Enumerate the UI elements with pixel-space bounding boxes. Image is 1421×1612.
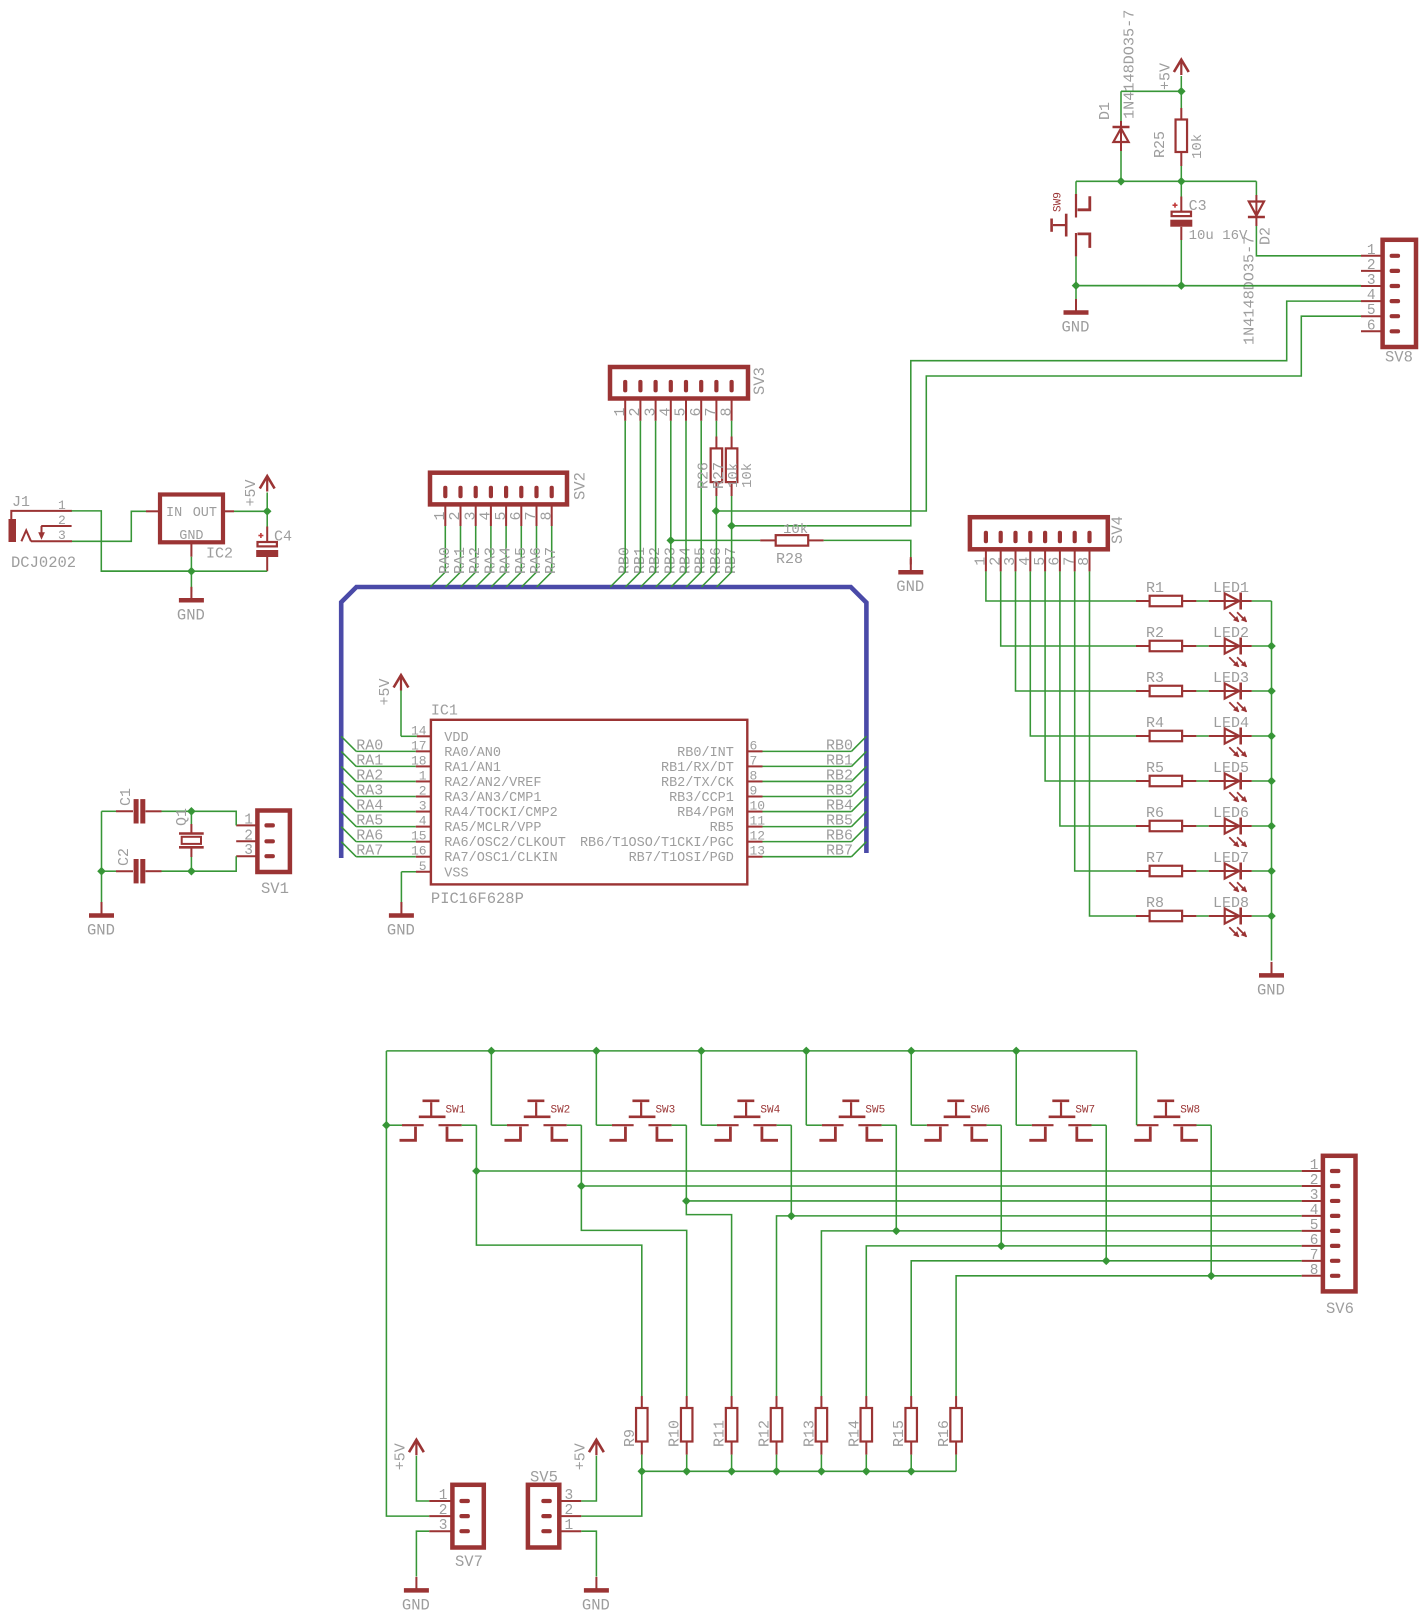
svg-text:1: 1 bbox=[1367, 243, 1376, 259]
svg-text:SW4: SW4 bbox=[760, 1105, 780, 1117]
svg-text:LED6: LED6 bbox=[1213, 805, 1249, 822]
svg-text:6: 6 bbox=[1310, 1233, 1319, 1249]
svg-text:2: 2 bbox=[439, 1503, 448, 1519]
svg-text:SW6: SW6 bbox=[970, 1105, 990, 1117]
svg-text:C2: C2 bbox=[116, 848, 133, 866]
svg-text:DCJ0202: DCJ0202 bbox=[11, 554, 76, 572]
svg-text:GND: GND bbox=[1062, 319, 1090, 337]
svg-text:LED3: LED3 bbox=[1213, 670, 1249, 687]
svg-text:+5V: +5V bbox=[243, 479, 260, 506]
svg-text:+5V: +5V bbox=[392, 1443, 409, 1470]
svg-text:3: 3 bbox=[58, 528, 66, 543]
svg-text:R13: R13 bbox=[801, 1420, 818, 1447]
svg-text:LED8: LED8 bbox=[1213, 895, 1249, 912]
svg-text:D1: D1 bbox=[1097, 102, 1114, 120]
svg-text:1N4148DO35-7: 1N4148DO35-7 bbox=[1121, 10, 1139, 119]
svg-text:LED7: LED7 bbox=[1213, 850, 1249, 867]
svg-text:1: 1 bbox=[565, 1518, 574, 1534]
svg-text:GND: GND bbox=[387, 922, 415, 940]
svg-text:R10: R10 bbox=[667, 1420, 684, 1447]
svg-text:RB6/T1OSO/T1CKI/PGC: RB6/T1OSO/T1CKI/PGC bbox=[580, 836, 734, 851]
svg-text:RB3/CCP1: RB3/CCP1 bbox=[669, 791, 734, 806]
svg-text:2: 2 bbox=[1310, 1173, 1319, 1189]
svg-text:1: 1 bbox=[439, 1488, 448, 1504]
svg-text:SW9: SW9 bbox=[1053, 192, 1065, 212]
svg-text:R28: R28 bbox=[776, 551, 803, 568]
svg-text:1N4148DO35-7: 1N4148DO35-7 bbox=[1241, 236, 1259, 345]
svg-text:SV1: SV1 bbox=[261, 880, 289, 898]
svg-text:C1: C1 bbox=[118, 788, 135, 806]
svg-text:C4: C4 bbox=[274, 529, 292, 546]
svg-text:3: 3 bbox=[244, 843, 253, 859]
svg-text:SV2: SV2 bbox=[572, 472, 590, 500]
svg-text:SW1: SW1 bbox=[446, 1105, 466, 1117]
svg-text:RA3/AN3/CMP1: RA3/AN3/CMP1 bbox=[444, 791, 541, 806]
svg-text:7: 7 bbox=[1310, 1248, 1319, 1264]
svg-text:GND: GND bbox=[582, 1596, 610, 1612]
svg-text:1: 1 bbox=[244, 812, 253, 828]
svg-text:SW8: SW8 bbox=[1180, 1105, 1200, 1117]
svg-text:R27: R27 bbox=[711, 462, 728, 489]
svg-text:RB4/PGM: RB4/PGM bbox=[677, 806, 734, 821]
svg-text:1: 1 bbox=[58, 498, 66, 513]
svg-text:+5V: +5V bbox=[1157, 63, 1174, 90]
svg-text:RB5: RB5 bbox=[710, 821, 734, 836]
svg-text:R7: R7 bbox=[1146, 850, 1164, 867]
svg-text:R12: R12 bbox=[757, 1420, 774, 1447]
svg-text:LED4: LED4 bbox=[1213, 715, 1249, 732]
svg-text:R4: R4 bbox=[1146, 715, 1164, 732]
svg-text:R16: R16 bbox=[936, 1420, 953, 1447]
svg-text:RA5/MCLR/VPP: RA5/MCLR/VPP bbox=[444, 821, 541, 836]
svg-text:LED2: LED2 bbox=[1213, 625, 1249, 642]
svg-text:GND: GND bbox=[896, 578, 924, 596]
svg-text:J1: J1 bbox=[12, 494, 30, 511]
svg-text:10k: 10k bbox=[783, 522, 808, 538]
svg-text:SV7: SV7 bbox=[455, 1553, 483, 1571]
svg-text:GND: GND bbox=[177, 606, 205, 624]
svg-text:10k: 10k bbox=[1190, 134, 1206, 159]
svg-text:R1: R1 bbox=[1146, 580, 1164, 597]
svg-text:R26: R26 bbox=[696, 462, 713, 489]
svg-text:RA7/OSC1/CLKIN: RA7/OSC1/CLKIN bbox=[444, 851, 557, 866]
svg-text:R14: R14 bbox=[846, 1420, 863, 1447]
svg-text:2: 2 bbox=[565, 1503, 574, 1519]
svg-text:IC2: IC2 bbox=[206, 546, 233, 563]
svg-text:10k: 10k bbox=[740, 463, 756, 488]
svg-text:SW2: SW2 bbox=[550, 1105, 570, 1117]
svg-text:SW7: SW7 bbox=[1075, 1105, 1095, 1117]
svg-text:R5: R5 bbox=[1146, 760, 1164, 777]
svg-text:SW3: SW3 bbox=[655, 1105, 675, 1117]
svg-text:SV5: SV5 bbox=[530, 1469, 558, 1487]
svg-text:C3: C3 bbox=[1189, 198, 1207, 215]
svg-text:RB7/T1OSI/PGD: RB7/T1OSI/PGD bbox=[629, 851, 734, 866]
svg-text:OUT: OUT bbox=[193, 506, 217, 521]
svg-text:R11: R11 bbox=[712, 1420, 729, 1447]
svg-text:1: 1 bbox=[1310, 1158, 1319, 1174]
svg-text:SV3: SV3 bbox=[751, 367, 769, 395]
svg-text:5: 5 bbox=[1310, 1218, 1319, 1234]
svg-text:8: 8 bbox=[718, 407, 735, 416]
svg-text:GND: GND bbox=[402, 1596, 430, 1612]
svg-text:RA2/AN2/VREF: RA2/AN2/VREF bbox=[444, 776, 541, 791]
svg-text:RB1/RX/DT: RB1/RX/DT bbox=[661, 761, 734, 776]
svg-text:RA1/AN1: RA1/AN1 bbox=[444, 761, 501, 776]
svg-text:R15: R15 bbox=[891, 1420, 908, 1447]
svg-text:VSS: VSS bbox=[444, 866, 468, 881]
svg-text:RA4/TOCKI/CMP2: RA4/TOCKI/CMP2 bbox=[444, 806, 557, 821]
svg-text:D2: D2 bbox=[1258, 227, 1275, 245]
svg-text:5: 5 bbox=[1367, 303, 1376, 319]
svg-text:VDD: VDD bbox=[444, 731, 468, 746]
svg-text:R9: R9 bbox=[622, 1429, 639, 1447]
svg-text:LED1: LED1 bbox=[1213, 580, 1249, 597]
svg-text:R8: R8 bbox=[1146, 895, 1164, 912]
svg-text:SV6: SV6 bbox=[1326, 1300, 1354, 1318]
svg-text:3: 3 bbox=[1367, 273, 1376, 289]
svg-text:PIC16F628P: PIC16F628P bbox=[431, 890, 524, 908]
svg-text:R3: R3 bbox=[1146, 670, 1164, 687]
svg-text:RA6/OSC2/CLKOUT: RA6/OSC2/CLKOUT bbox=[444, 836, 566, 851]
svg-text:RA7: RA7 bbox=[356, 843, 383, 860]
svg-text:+5V: +5V bbox=[377, 678, 394, 705]
svg-text:SV4: SV4 bbox=[1109, 516, 1127, 544]
svg-text:GND: GND bbox=[1257, 981, 1285, 999]
svg-text:4: 4 bbox=[1310, 1203, 1319, 1219]
svg-text:IC1: IC1 bbox=[431, 703, 458, 720]
svg-text:GND: GND bbox=[179, 529, 203, 544]
svg-text:RB7: RB7 bbox=[826, 843, 853, 860]
svg-text:8: 8 bbox=[1076, 557, 1093, 566]
svg-text:4: 4 bbox=[1367, 288, 1376, 304]
svg-text:SW5: SW5 bbox=[865, 1105, 885, 1117]
svg-text:IN: IN bbox=[166, 506, 182, 521]
svg-text:R2: R2 bbox=[1146, 625, 1164, 642]
svg-text:RB0/INT: RB0/INT bbox=[677, 746, 734, 761]
svg-text:GND: GND bbox=[87, 922, 115, 940]
svg-text:+5V: +5V bbox=[572, 1443, 589, 1470]
svg-text:R25: R25 bbox=[1152, 131, 1169, 158]
svg-text:8: 8 bbox=[1310, 1263, 1319, 1279]
svg-text:3: 3 bbox=[1310, 1188, 1319, 1204]
svg-text:RA0/AN0: RA0/AN0 bbox=[444, 746, 501, 761]
svg-text:6: 6 bbox=[1367, 318, 1376, 334]
svg-text:8: 8 bbox=[538, 511, 555, 520]
svg-text:2: 2 bbox=[58, 513, 66, 528]
svg-text:RB2/TX/CK: RB2/TX/CK bbox=[661, 776, 735, 791]
svg-text:RA7: RA7 bbox=[543, 547, 560, 574]
svg-text:Q1: Q1 bbox=[174, 808, 191, 826]
svg-text:10u 16V: 10u 16V bbox=[1189, 228, 1248, 244]
svg-text:LED5: LED5 bbox=[1213, 760, 1249, 777]
svg-text:SV8: SV8 bbox=[1385, 349, 1413, 367]
svg-text:3: 3 bbox=[565, 1488, 574, 1504]
svg-text:3: 3 bbox=[439, 1518, 448, 1534]
svg-text:R6: R6 bbox=[1146, 805, 1164, 822]
svg-text:2: 2 bbox=[1367, 258, 1376, 274]
svg-text:2: 2 bbox=[244, 828, 253, 844]
